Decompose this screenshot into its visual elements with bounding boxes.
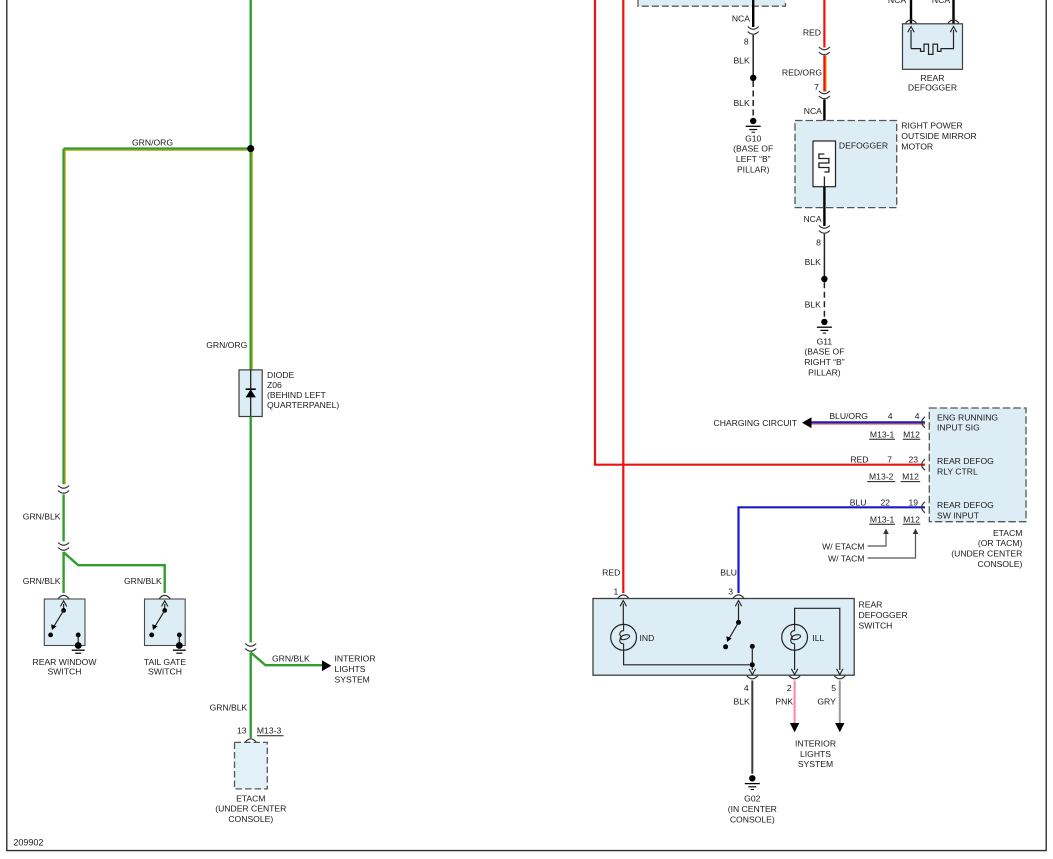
pin 4 exit arrow bbox=[749, 669, 755, 675]
arrow to interior lights system bbox=[322, 660, 331, 671]
wire GRN/BLK down to ETACM bbox=[249, 653, 251, 739]
svg-text:SWITCH: SWITCH bbox=[859, 621, 893, 631]
svg-text:GRN/BLK: GRN/BLK bbox=[124, 576, 162, 586]
svg-text:QUARTERPANEL): QUARTERPANEL) bbox=[267, 400, 339, 410]
svg-text:GRN/ORG: GRN/ORG bbox=[206, 340, 247, 350]
label REAR DEFOGGER bbox=[908, 73, 957, 93]
svg-text:DEFOGGER: DEFOGGER bbox=[839, 141, 888, 151]
svg-text:4: 4 bbox=[915, 411, 920, 421]
ground at tail gate switch bbox=[173, 642, 186, 653]
svg-text:NCA: NCA bbox=[803, 214, 821, 224]
junction dot (G10 splice) bbox=[750, 75, 756, 81]
svg-text:PNK: PNK bbox=[775, 696, 793, 706]
wire RED 1 (to rly ctrl) bbox=[595, 0, 925, 465]
svg-text:Z06: Z06 bbox=[267, 380, 282, 390]
switch S1 REAR WINDOW SWITCH bbox=[44, 599, 85, 646]
junction dot at pin 4 node bbox=[750, 662, 755, 667]
svg-text:RED: RED bbox=[602, 568, 620, 578]
svg-text:209902: 209902 bbox=[13, 838, 43, 848]
svg-text:LIGHTS: LIGHTS bbox=[800, 749, 831, 759]
wire NCA below mirror motor bbox=[823, 187, 825, 226]
connector M13-3 label bbox=[257, 726, 284, 736]
svg-text:BLK: BLK bbox=[733, 56, 750, 66]
svg-text:NCA: NCA bbox=[732, 13, 750, 23]
svg-text:M13-2: M13-2 bbox=[869, 472, 894, 482]
label DIODE Z06 bbox=[267, 370, 339, 410]
svg-text:PILLAR): PILLAR) bbox=[808, 368, 841, 378]
wire IND to pin4 node bbox=[624, 650, 753, 665]
svg-text:3: 3 bbox=[728, 587, 733, 597]
svg-text:8: 8 bbox=[816, 237, 821, 247]
svg-text:RED: RED bbox=[850, 454, 868, 464]
inline connector (RED to RED/ORG) bbox=[819, 47, 830, 55]
connector arc at switch pin 3 bbox=[733, 595, 744, 598]
svg-text:1: 1 bbox=[614, 587, 619, 597]
switch arm (open) bbox=[729, 622, 739, 639]
svg-text:M13-1: M13-1 bbox=[870, 429, 895, 439]
svg-text:SWITCH: SWITCH bbox=[148, 667, 182, 677]
labels on BLU/ORG line bbox=[829, 411, 920, 439]
stationary contact dot bbox=[723, 644, 728, 649]
label ENG RUNNING INPUT SIG bbox=[937, 412, 998, 432]
svg-text:13: 13 bbox=[237, 726, 247, 736]
svg-text:LEFT “B”: LEFT “B” bbox=[736, 154, 771, 164]
wire BLK dashed to ground bbox=[823, 282, 825, 317]
svg-text:NCA: NCA bbox=[804, 106, 822, 116]
svg-text:ENG RUNNING: ENG RUNNING bbox=[937, 412, 998, 422]
wire GRN/BLK middle below diode bbox=[249, 417, 251, 643]
inline connector on left wire 2 bbox=[58, 543, 69, 551]
wire branch to interior lights bbox=[251, 653, 322, 666]
ground G02 bbox=[745, 775, 760, 789]
svg-text:GRN/BLK: GRN/BLK bbox=[210, 703, 248, 713]
wire NCA into mirror motor bbox=[823, 100, 825, 155]
svg-text:NCA: NCA bbox=[932, 0, 950, 5]
wire BLU/ORG charging circuit bbox=[811, 422, 926, 424]
svg-text:DEFOGGER: DEFOGGER bbox=[859, 610, 908, 620]
switch S2 TAIL GATE SWITCH bbox=[145, 599, 186, 646]
svg-text:G10: G10 bbox=[745, 133, 761, 143]
label REAR DEFOG SW INPUT bbox=[937, 500, 994, 520]
svg-text:4: 4 bbox=[744, 683, 749, 693]
svg-text:DEFOGGER: DEFOGGER bbox=[908, 82, 957, 92]
label REAR WINDOW SWITCH bbox=[33, 657, 98, 677]
svg-text:ETACM: ETACM bbox=[993, 528, 1022, 538]
inline connector pin 8 (G10 branch) bbox=[748, 27, 759, 35]
svg-text:SYSTEM: SYSTEM bbox=[335, 674, 370, 684]
svg-text:(BASE OF: (BASE OF bbox=[804, 347, 844, 357]
pin 3 entry arrow bbox=[738, 604, 740, 623]
pin 5 exit arrow bbox=[837, 669, 843, 675]
svg-text:5: 5 bbox=[831, 683, 836, 693]
svg-text:GRN/BLK: GRN/BLK bbox=[23, 512, 61, 522]
switch arm pivot dot bbox=[736, 620, 741, 625]
svg-text:(BASE OF: (BASE OF bbox=[733, 144, 773, 154]
inline connector pin 8 (G11 branch) bbox=[819, 226, 830, 234]
svg-text:(BEHIND LEFT: (BEHIND LEFT bbox=[267, 390, 326, 400]
arrow PNK to interior lights bbox=[790, 723, 799, 732]
pin 1 entry arrow bbox=[622, 604, 624, 625]
svg-text:RLY CTRL: RLY CTRL bbox=[937, 467, 978, 477]
module ETACM (OR TACM) dashed box bbox=[929, 408, 1026, 522]
svg-text:REAR DEFOG: REAR DEFOG bbox=[937, 500, 994, 510]
svg-text:ILL: ILL bbox=[812, 633, 824, 643]
svg-text:RIGHT POWER: RIGHT POWER bbox=[901, 121, 962, 131]
svg-text:SW INPUT: SW INPUT bbox=[937, 511, 980, 521]
svg-text:INPUT SIG: INPUT SIG bbox=[937, 423, 980, 433]
svg-text:INTERIOR: INTERIOR bbox=[795, 738, 836, 748]
svg-text:7: 7 bbox=[887, 454, 892, 464]
label TAIL GATE SWITCH bbox=[144, 657, 187, 677]
svg-text:BLU/ORG: BLU/ORG bbox=[829, 411, 868, 421]
wire GRN/ORG left vertical down to connector bbox=[64, 149, 66, 485]
pin 4 contact dot bbox=[750, 644, 755, 649]
ground G11 bbox=[817, 319, 832, 333]
svg-text:M12: M12 bbox=[903, 429, 920, 439]
svg-text:(UNDER CENTER: (UNDER CENTER bbox=[951, 549, 1022, 559]
svg-text:23: 23 bbox=[909, 454, 919, 464]
svg-text:DIODE: DIODE bbox=[267, 370, 294, 380]
label ETACM (OR TACM)(UNDER CENTER CONSOLE) bbox=[951, 528, 1022, 569]
svg-text:2: 2 bbox=[787, 683, 792, 693]
ground at rear window switch bbox=[72, 642, 85, 653]
svg-text:REAR DEFOG: REAR DEFOG bbox=[937, 456, 994, 466]
svg-text:BLK: BLK bbox=[734, 696, 751, 706]
svg-text:BLK: BLK bbox=[733, 98, 750, 108]
svg-text:BLK: BLK bbox=[805, 299, 822, 309]
defogger element U-mirror inner box bbox=[813, 141, 836, 187]
svg-text:GRY: GRY bbox=[817, 696, 836, 706]
wire RED 3 (mirror defogger feed) bbox=[823, 0, 825, 48]
svg-text:M12: M12 bbox=[902, 472, 919, 482]
svg-text:NCA: NCA bbox=[888, 0, 906, 5]
module RIGHT POWER OUTSIDE MIRROR MOTOR dashed box bbox=[795, 121, 897, 208]
svg-text:M13-1: M13-1 bbox=[870, 514, 895, 524]
lamp ILL bbox=[782, 624, 808, 650]
inline connector pin 7 bbox=[819, 91, 830, 99]
svg-text:8: 8 bbox=[744, 36, 749, 46]
svg-text:(IN CENTER: (IN CENTER bbox=[728, 804, 777, 814]
label RIGHT POWER OUTSIDE MIRROR MOTOR bbox=[901, 121, 976, 152]
svg-text:IND: IND bbox=[640, 633, 655, 643]
diode Z06 box bbox=[239, 370, 262, 417]
svg-text:RED/ORG: RED/ORG bbox=[782, 67, 822, 77]
label REAR DEFOG RLY CTRL bbox=[937, 456, 994, 476]
label INTERIOR LIGHTS SYSTEM (right) bbox=[795, 738, 836, 769]
wire GRN/ORG horizontal branch bbox=[64, 149, 251, 151]
svg-text:CONSOLE): CONSOLE) bbox=[228, 814, 273, 824]
svg-text:G11: G11 bbox=[817, 336, 833, 346]
wire branch to tail gate switch bbox=[64, 552, 165, 593]
wire BLK to junction bbox=[823, 234, 825, 277]
note W/ TACM with arrow bbox=[828, 529, 918, 564]
svg-text:W/ TACM: W/ TACM bbox=[828, 553, 864, 563]
svg-text:BLU: BLU bbox=[850, 497, 867, 507]
junction dot (G11 splice) bbox=[821, 276, 827, 282]
wire BLK to junction bbox=[752, 35, 754, 76]
component REAR DEFOGGER (grid) bbox=[888, 0, 963, 69]
svg-text:RED: RED bbox=[803, 27, 821, 37]
svg-text:M12: M12 bbox=[903, 514, 920, 524]
wire to rear window switch bbox=[62, 552, 64, 593]
svg-text:CONSOLE): CONSOLE) bbox=[730, 815, 775, 825]
svg-text:ETACM: ETACM bbox=[236, 793, 265, 803]
svg-text:4: 4 bbox=[888, 411, 893, 421]
label INTERIOR LIGHTS SYSTEM (left) bbox=[335, 654, 376, 685]
svg-text:G02: G02 bbox=[744, 794, 760, 804]
wire ILL bottom to pin 2 bbox=[794, 650, 796, 670]
svg-text:PILLAR): PILLAR) bbox=[737, 165, 770, 175]
wire BLK dashed to ground bbox=[752, 81, 754, 117]
connector arc at ETACM eng running bbox=[922, 417, 925, 428]
inline connector on middle wire bbox=[245, 644, 256, 652]
svg-text:M13-3: M13-3 bbox=[257, 726, 282, 736]
connector arc at switch pin 1 bbox=[618, 595, 629, 598]
svg-text:7: 7 bbox=[814, 82, 819, 92]
top dashed module box (power feed, partial) bbox=[638, 0, 786, 6]
connector arc at switch pin 2 bbox=[789, 676, 800, 679]
label G11 (BASE OF RIGHT B PILLAR) bbox=[804, 336, 845, 377]
labels on BLU line bbox=[850, 497, 921, 524]
wire NCA from top box to G10 branch bbox=[752, 0, 754, 27]
wire contact to pin 4 bbox=[751, 646, 753, 670]
svg-text:MOTOR: MOTOR bbox=[901, 141, 933, 151]
inline connector on left wire bbox=[58, 486, 69, 494]
switch S3 REAR DEFOGGER SWITCH bbox=[593, 599, 854, 676]
svg-text:SYSTEM: SYSTEM bbox=[798, 759, 833, 769]
wire PNK from pin 2 bbox=[793, 681, 795, 724]
svg-text:GRN/ORG: GRN/ORG bbox=[132, 137, 173, 147]
svg-text:GRN/BLK: GRN/BLK bbox=[23, 576, 61, 586]
label G10 (BASE OF LEFT B PILLAR) bbox=[733, 133, 773, 174]
ground G10 bbox=[746, 118, 761, 132]
connector arc at switch pin 4 bbox=[747, 676, 758, 679]
svg-text:GRN/BLK: GRN/BLK bbox=[272, 654, 310, 664]
arrow to charging circuit bbox=[802, 417, 812, 428]
node junction dot at GRN/ORG tee bbox=[247, 145, 254, 152]
wire BLU (sw input) bbox=[739, 507, 926, 593]
svg-text:INTERIOR: INTERIOR bbox=[335, 654, 376, 664]
svg-text:(OR TACM): (OR TACM) bbox=[978, 538, 1023, 548]
connector arc at ETACM pin 13 bbox=[245, 739, 256, 742]
labels on RED rly ctrl line bbox=[850, 454, 920, 481]
wire RED 2 (to switch pin 1) bbox=[622, 0, 624, 593]
connector arc at ETACM rly ctrl bbox=[922, 459, 925, 470]
connector at rear window switch pin bbox=[58, 595, 69, 598]
svg-text:OUTSIDE MIRROR: OUTSIDE MIRROR bbox=[901, 131, 976, 141]
svg-text:TAIL GATE: TAIL GATE bbox=[144, 657, 187, 667]
wire GRY from pin 5 bbox=[839, 681, 841, 724]
svg-text:CHARGING CIRCUIT: CHARGING CIRCUIT bbox=[714, 418, 798, 428]
wire BLK from pin 4 to G02 bbox=[751, 681, 753, 774]
wire GRN/BLK left vertical to second connector bbox=[62, 495, 64, 542]
svg-text:RIGHT “B”: RIGHT “B” bbox=[804, 357, 845, 367]
svg-text:BLK: BLK bbox=[805, 257, 822, 267]
svg-text:REAR: REAR bbox=[859, 600, 883, 610]
note W/ ETACM with arrow bbox=[822, 529, 889, 552]
connector arc at ETACM sw input bbox=[922, 502, 925, 513]
wire ILL top to pin 5 bbox=[795, 608, 840, 670]
svg-text:(UNDER CENTER: (UNDER CENTER bbox=[215, 804, 286, 814]
connector arc at switch pin 5 bbox=[834, 676, 845, 679]
svg-text:19: 19 bbox=[909, 497, 919, 507]
lamp IND bbox=[611, 624, 637, 650]
svg-text:LIGHTS: LIGHTS bbox=[335, 664, 366, 674]
svg-text:REAR: REAR bbox=[921, 73, 945, 83]
label G02 (IN CENTER CONSOLE) bbox=[728, 794, 777, 825]
svg-text:CONSOLE): CONSOLE) bbox=[978, 559, 1023, 569]
arrow GRY to interior lights bbox=[835, 723, 844, 732]
wire GRN/ORG middle vertical (top to diode) bbox=[251, 0, 253, 370]
wire RED/ORG segment bbox=[824, 56, 826, 92]
module ETACM (under center console) dashed box bbox=[235, 742, 268, 789]
svg-text:BLU: BLU bbox=[720, 568, 737, 578]
svg-text:W/ ETACM: W/ ETACM bbox=[822, 541, 864, 551]
label REAR DEFOGGER SWITCH bbox=[859, 600, 908, 631]
svg-text:22: 22 bbox=[881, 497, 891, 507]
connector at tail gate switch pin bbox=[159, 595, 170, 598]
svg-text:REAR WINDOW: REAR WINDOW bbox=[33, 657, 98, 667]
pin 2 exit arrow bbox=[791, 669, 797, 675]
svg-text:SWITCH: SWITCH bbox=[48, 667, 82, 677]
label ETACM (UNDER CENTER CONSOLE) bbox=[215, 793, 286, 824]
